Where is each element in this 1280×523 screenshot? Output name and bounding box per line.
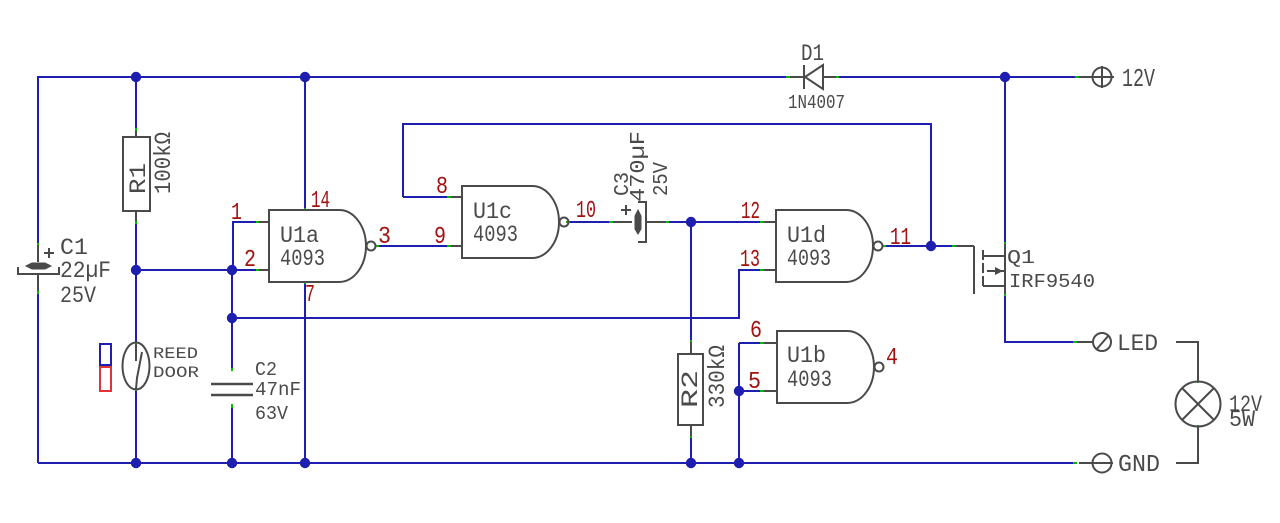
svg-text:12V: 12V bbox=[1122, 65, 1155, 94]
svg-text:GND: GND bbox=[1118, 452, 1160, 479]
svg-text:100kΩ: 100kΩ bbox=[151, 132, 178, 194]
svg-text:25V: 25V bbox=[651, 162, 674, 196]
svg-text:DOOR: DOOR bbox=[153, 364, 199, 382]
svg-text:330kΩ: 330kΩ bbox=[705, 345, 732, 408]
svg-text:12: 12 bbox=[741, 199, 760, 226]
svg-text:4: 4 bbox=[886, 345, 898, 372]
svg-text:5W: 5W bbox=[1229, 407, 1255, 433]
svg-text:IRF9540: IRF9540 bbox=[1009, 271, 1095, 293]
svg-text:2: 2 bbox=[244, 247, 256, 274]
svg-text:4093: 4093 bbox=[787, 246, 831, 273]
svg-text:7: 7 bbox=[305, 282, 315, 309]
svg-text:22µF: 22µF bbox=[60, 258, 111, 285]
svg-text:10: 10 bbox=[576, 198, 596, 225]
svg-text:470µF: 470µF bbox=[628, 131, 651, 202]
svg-text:1: 1 bbox=[231, 200, 242, 227]
svg-text:4093: 4093 bbox=[280, 246, 325, 273]
svg-text:R2: R2 bbox=[678, 370, 705, 408]
svg-text:25V: 25V bbox=[60, 283, 96, 310]
svg-text:5: 5 bbox=[748, 369, 761, 396]
svg-text:3: 3 bbox=[378, 224, 391, 251]
svg-text:U1b: U1b bbox=[787, 343, 826, 370]
svg-text:LED: LED bbox=[1117, 331, 1158, 358]
svg-text:REED: REED bbox=[153, 345, 198, 363]
svg-text:8: 8 bbox=[436, 174, 448, 201]
svg-text:63V: 63V bbox=[255, 403, 288, 425]
svg-text:4093: 4093 bbox=[787, 367, 832, 394]
svg-text:6: 6 bbox=[750, 318, 762, 345]
svg-text:47nF: 47nF bbox=[255, 379, 301, 401]
svg-text:Q1: Q1 bbox=[1007, 247, 1035, 269]
svg-text:9: 9 bbox=[434, 224, 446, 251]
svg-text:13: 13 bbox=[740, 247, 760, 274]
svg-text:14: 14 bbox=[311, 188, 330, 215]
svg-text:11: 11 bbox=[890, 225, 911, 252]
svg-text:1N4007: 1N4007 bbox=[788, 92, 845, 114]
svg-text:R1: R1 bbox=[126, 163, 153, 194]
svg-text:D1: D1 bbox=[801, 41, 824, 68]
svg-text:C2: C2 bbox=[255, 359, 277, 381]
svg-text:4093: 4093 bbox=[473, 222, 518, 249]
